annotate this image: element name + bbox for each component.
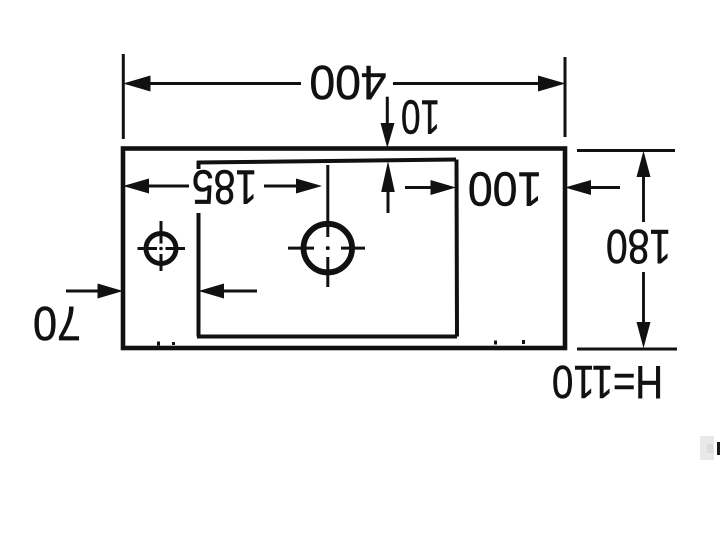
dimension 70 right arrowhead — [199, 284, 225, 299]
pocket inner rectangle bottom edge — [197, 335, 457, 339]
dimension 400 line right segment — [393, 82, 540, 85]
dimension 185 left arrowhead — [123, 179, 149, 194]
dimension 10 up arrow — [381, 161, 395, 213]
large hole vertical centerline — [326, 165, 329, 287]
dimension 400 left extension line — [122, 54, 125, 139]
dimension 10 value label — [401, 90, 440, 143]
dimension 180 top arrowhead — [637, 151, 651, 177]
dimension 70 value label — [33, 296, 81, 349]
dimension 100 left arrowhead — [431, 180, 457, 195]
height note H=110 label — [552, 356, 663, 408]
svg-text:400: 400 — [310, 55, 387, 108]
part outline outer rectangle — [123, 149, 565, 349]
dimension 100 line left segment — [405, 186, 432, 189]
pocket inner rectangle left edge stub — [197, 161, 201, 169]
svg-text:100: 100 — [468, 162, 542, 215]
pocket inner rectangle left edge — [197, 213, 201, 337]
dimension 100 value label — [468, 162, 542, 215]
small hole horizontal centerline — [138, 247, 186, 250]
scan speck on bottom edge right2 — [522, 340, 525, 344]
scan speck on bottom edge right1 — [494, 341, 497, 345]
small hole circle — [146, 234, 176, 264]
dimension 400 right extension line — [564, 57, 567, 137]
svg-text:H=110: H=110 — [552, 356, 663, 408]
svg-text:180: 180 — [606, 219, 671, 272]
dimension 180 bottom extension line — [577, 348, 677, 351]
dimension 180 line upper segment — [642, 175, 645, 325]
large hole circle — [304, 224, 353, 273]
dimension 185 line left segment — [140, 185, 189, 188]
dimension 70 line left segment — [66, 290, 100, 293]
scan artifact black bar right edge — [717, 442, 720, 455]
large hole center dot — [326, 246, 330, 250]
scan artifact gray smudge near right edge — [700, 436, 714, 460]
dimension 400 line left segment — [150, 82, 301, 85]
dimension 400 right arrowhead — [538, 76, 566, 92]
small hole center dot — [159, 247, 163, 251]
pocket inner rectangle top edge — [197, 160, 456, 163]
svg-text:185: 185 — [192, 160, 257, 213]
dimension 70 line right segment — [224, 290, 257, 293]
dimension 70 left arrowhead — [98, 284, 124, 299]
dimension 185 right arrowhead — [296, 179, 322, 194]
dimension 100 right arrowhead — [565, 180, 591, 195]
svg-text:70: 70 — [33, 296, 81, 349]
dimension 400 left arrowhead — [123, 76, 151, 92]
dimension 185 value label — [192, 160, 257, 213]
dimension 400 value label — [310, 55, 387, 108]
scan speck on bottom edge left — [157, 342, 160, 346]
dimension 10 down arrow — [381, 97, 395, 148]
small hole vertical centerline — [160, 221, 163, 271]
dimension 180 value label — [606, 219, 671, 272]
dimension 185 line right segment — [264, 185, 298, 188]
dimension 180 top extension line — [577, 149, 675, 152]
pocket inner rectangle right edge — [455, 160, 460, 337]
dimension 100 line right segment — [590, 186, 620, 189]
svg-text:10: 10 — [401, 90, 440, 143]
dimension 180 bottom arrowhead — [637, 322, 651, 348]
large hole horizontal centerline — [288, 247, 365, 250]
scan speck on bottom edge left2 — [172, 342, 175, 345]
